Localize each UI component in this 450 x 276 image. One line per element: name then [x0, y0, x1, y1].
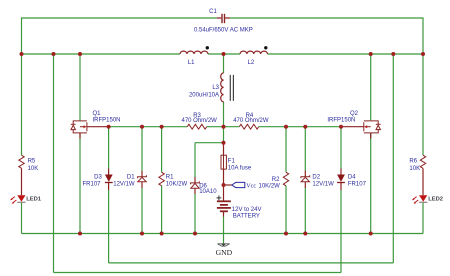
wire D1 column lower [141, 188, 143, 234]
wire Q2 source pin stub [370, 133, 372, 139]
wire D6 column upper [194, 143, 196, 177]
svg-text:F1: F1 [228, 159, 236, 165]
junction dot Vcc node [222, 183, 226, 187]
svg-text:C1: C1 [209, 9, 217, 15]
wire top-left L [22, 18, 217, 54]
svg-text:BATTERY: BATTERY [233, 213, 260, 219]
wire drain bus left segment [22, 53, 181, 55]
svg-text:Vcc: Vcc [246, 182, 256, 189]
svg-text:10K/2W: 10K/2W [259, 183, 281, 189]
wire cross-couple A vertical left [53, 54, 55, 273]
resistor R5 [19, 155, 24, 168]
wire cross-couple A right vertical to D4 [340, 190, 342, 273]
wire drain bus right segment [268, 53, 424, 55]
wire R6 to LED2 [422, 168, 424, 195]
junction dots gate bus [107, 125, 343, 129]
inductor L2 [240, 51, 268, 54]
svg-text:470 Ohm/2W: 470 Ohm/2W [233, 118, 269, 124]
wire Q2 gate red [341, 126, 364, 128]
svg-text:R6: R6 [409, 159, 417, 165]
wire fuse top pin [223, 143, 225, 156]
wire Q2 drain [370, 54, 372, 120]
wire cross-couple B vertical right [392, 54, 394, 263]
wire R1 column lower [161, 186, 163, 234]
svg-text:10A fuse: 10A fuse [228, 166, 252, 172]
diode D3 FR107 [105, 175, 113, 183]
fuse F1 [221, 155, 226, 169]
resistor R4 [239, 124, 258, 129]
polarity dot L1 [206, 46, 209, 49]
inductor L1 [180, 51, 208, 54]
svg-text:R1: R1 [166, 175, 174, 181]
svg-text:Q2: Q2 [350, 111, 359, 117]
wire Q2 source [370, 133, 372, 233]
svg-text:R2: R2 [272, 177, 280, 183]
wire ground bus [22, 233, 424, 235]
svg-text:FR107: FR107 [82, 182, 101, 188]
svg-text:D2: D2 [312, 175, 320, 181]
svg-text:IRFP150N: IRFP150N [327, 118, 355, 124]
wire D6 column lower [194, 194, 196, 234]
wire below LED2 [422, 203, 424, 234]
polarity dot L2 [264, 46, 267, 49]
wire center column L3 top [223, 54, 225, 73]
power port Vcc [232, 182, 245, 187]
wire D3 column upper [108, 127, 110, 169]
wire D1 top pin [141, 171, 143, 177]
wire below LED1 [21, 203, 23, 234]
junction dots drain bus [20, 52, 426, 56]
svg-text:D3: D3 [94, 175, 102, 181]
diode D4 FR107 [337, 175, 345, 183]
wire Q1 gate red [87, 126, 109, 128]
svg-text:470 Ohm/2W: 470 Ohm/2W [182, 118, 218, 124]
wire D4 bottom pin [340, 183, 342, 190]
battery plus sign [217, 196, 222, 201]
svg-text:D4: D4 [348, 175, 356, 181]
wire Q1 source [79, 133, 81, 233]
wire D3 top pin [108, 169, 110, 175]
wire left rail above R5 [21, 54, 23, 155]
svg-text:10K: 10K [28, 166, 39, 172]
svg-text:IRFP150N: IRFP150N [93, 117, 121, 123]
wire R2 column upper [285, 127, 287, 173]
LED1 [10, 195, 25, 203]
wire gate bus to R3 [109, 126, 188, 128]
resistor R1 [159, 172, 164, 186]
svg-text:LED1: LED1 [26, 197, 42, 203]
wire R1 column upper [161, 127, 163, 173]
svg-text:D1: D1 [127, 175, 135, 181]
L3 core bars [230, 75, 233, 101]
wire D1 column upper [141, 127, 143, 171]
wire fuse bottom pin to Vcc node [223, 169, 225, 185]
svg-text:R5: R5 [28, 159, 36, 165]
wire D6 branch horizontal [195, 142, 224, 144]
wire D1 bottom pin [141, 182, 143, 188]
svg-text:L2: L2 [248, 60, 255, 66]
wire D3 column lower [108, 190, 110, 263]
MOSFET Q1 [71, 121, 87, 133]
wire cross-couple B horizontal [109, 262, 394, 264]
svg-text:Q1: Q1 [93, 111, 102, 117]
svg-text:10K/2W: 10K/2W [166, 182, 188, 188]
wire battery to ground bus [223, 217, 225, 244]
resistor R3 [187, 124, 206, 129]
junction dots ground bus [78, 232, 373, 236]
svg-text:0.54uF/650V AC MKP: 0.54uF/650V AC MKP [194, 27, 253, 33]
wire D2 column upper [304, 127, 306, 171]
wire R4 to D4 node [259, 126, 341, 128]
wire L3 bottom to gate bus [223, 102, 225, 127]
wire Q1 drain [79, 54, 81, 120]
wire R2 column lower [285, 186, 287, 234]
wire D2 column lower [304, 188, 306, 234]
wire D4 top pin [340, 169, 342, 175]
wire Q1 source pin stub [79, 133, 81, 139]
wire D6 bottom pin [194, 188, 196, 194]
wire center tap segment [208, 53, 240, 55]
svg-text:200uH/10A: 200uH/10A [189, 93, 219, 99]
svg-text:GND: GND [216, 248, 233, 257]
svg-text:10A10: 10A10 [199, 189, 217, 195]
svg-text:12V/1W: 12V/1W [113, 182, 135, 188]
wire cross-couple A bottom horizontal [54, 272, 342, 274]
wire D3 bottom pin [108, 183, 110, 190]
wire D2 bottom pin [304, 182, 306, 188]
wire gate bus to fuse node [223, 127, 225, 143]
diode D6 10A10 [191, 181, 200, 188]
svg-text:L3: L3 [212, 85, 219, 91]
capacitor C1 [217, 14, 230, 23]
wire R5 to LED1 [21, 168, 23, 195]
battery B1 [217, 201, 231, 211]
svg-text:12V to 24V: 12V to 24V [232, 207, 262, 213]
wire top-right L [230, 18, 423, 54]
wire D6 top pin [194, 177, 196, 183]
ground symbol [217, 244, 229, 247]
wire R3 to R4 [207, 126, 240, 128]
MOSFET Q2 [364, 121, 381, 133]
resistor R2 [283, 172, 288, 186]
junction dot fuse node [222, 141, 226, 145]
LED2 [412, 195, 427, 203]
svg-text:10K: 10K [409, 166, 420, 172]
resistor R6 [420, 155, 425, 168]
wire Vcc tap horizontal [224, 184, 232, 186]
wire Vcc node to battery [223, 185, 225, 201]
wire right rail above R6 [422, 54, 424, 155]
svg-text:FR107: FR107 [348, 182, 367, 188]
wire D4 column upper [340, 127, 342, 169]
wire battery bottom pin [223, 211, 225, 216]
zener D1 [138, 175, 147, 182]
svg-text:12V/1W: 12V/1W [312, 182, 334, 188]
wire D2 top pin [304, 171, 306, 177]
inductor L3 [221, 73, 224, 102]
svg-text:L1: L1 [188, 60, 195, 66]
zener D2 [301, 175, 310, 182]
svg-text:LED2: LED2 [428, 197, 443, 203]
